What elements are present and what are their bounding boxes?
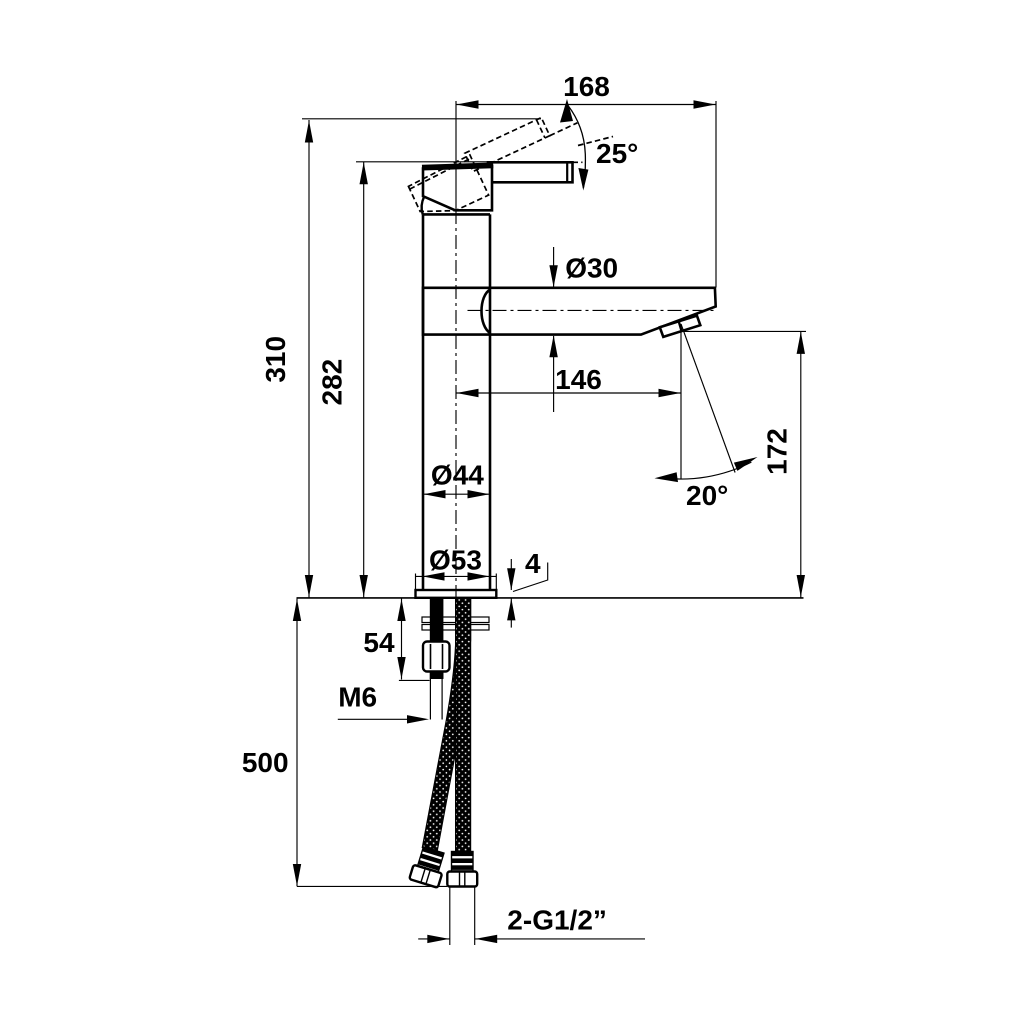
washer bar upper: [422, 617, 489, 623]
spout centerline dash-dot: [468, 309, 717, 311]
svg-text:Ø53: Ø53: [429, 545, 482, 576]
svg-text:168: 168: [563, 71, 610, 102]
handle lever bar: [488, 162, 573, 182]
svg-text:146: 146: [555, 364, 602, 395]
svg-text:25°: 25°: [596, 138, 638, 169]
spout root arc on body: [482, 289, 491, 333]
rotated bar bottom edge extension to arc: [550, 123, 578, 136]
svg-text:Ø44: Ø44: [431, 460, 484, 491]
cartridge head: [423, 166, 492, 210]
vertical reference from aerator: [680, 324, 682, 479]
svg-text:20°: 20°: [686, 480, 728, 511]
right hose collar: [452, 852, 474, 872]
vertical centerline upper solid: [455, 101, 457, 210]
rotated cap bottom line: [409, 158, 473, 189]
rod lines through nut: [431, 644, 443, 669]
aerator inner line: [679, 322, 682, 332]
washer bar lower: [422, 625, 489, 631]
rotated lever bar: [465, 118, 550, 172]
vertical centerline dash-dot: [455, 210, 457, 598]
base plate: [416, 590, 497, 598]
lever top edge extension dash: [573, 161, 583, 163]
slanted flow line: [681, 324, 735, 473]
aerator: [660, 316, 701, 337]
svg-text:500: 500: [242, 747, 289, 778]
svg-text:2-G1/2”: 2-G1/2”: [507, 905, 607, 936]
joint arc left of neck: [422, 197, 425, 215]
right hose (straight, braided): [456, 598, 471, 852]
rotated bar end cap: [536, 120, 544, 138]
left hose (tilted, braided): [422, 598, 470, 851]
svg-text:282: 282: [316, 359, 347, 406]
rod stub below nut: [430, 672, 444, 679]
right hose end nut G1/2: [447, 872, 477, 887]
svg-text:54: 54: [363, 627, 395, 658]
svg-text:172: 172: [762, 428, 793, 475]
left hose collar + nut (tilted): [409, 846, 448, 888]
arc: [659, 462, 751, 479]
25 deg leader dash to label: [578, 137, 613, 146]
body column: [423, 214, 490, 590]
rotated head outline: [407, 155, 488, 224]
threaded rod: [430, 598, 444, 679]
handle bar end cap line: [566, 162, 568, 182]
counter top line: [297, 597, 804, 599]
svg-text:4: 4: [525, 548, 541, 579]
svg-text:310: 310: [260, 336, 291, 383]
spout body: [423, 288, 716, 335]
svg-text:Ø30: Ø30: [565, 253, 618, 284]
mounting nut: [423, 642, 450, 672]
head top cap (thick): [422, 165, 493, 167]
rod outline below: [430, 679, 442, 720]
svg-text:M6: M6: [338, 682, 377, 713]
